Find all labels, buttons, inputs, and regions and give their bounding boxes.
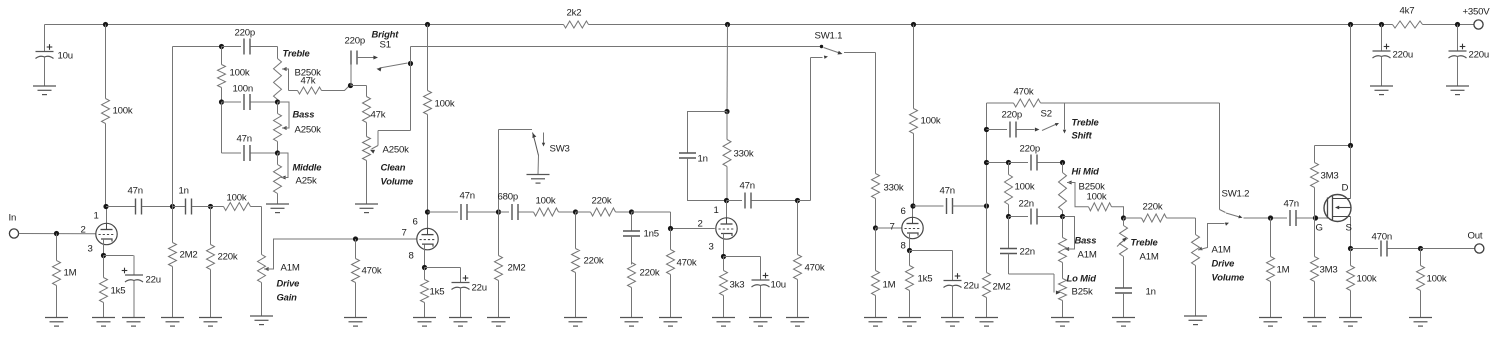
node source	[1348, 246, 1353, 251]
label Bass	[293, 109, 315, 120]
pin 8 label V2	[409, 251, 414, 262]
ground (10u V3)	[749, 318, 772, 327]
node 1n-220k	[192, 204, 224, 209]
resistor 2M2 (V2 out)	[495, 212, 526, 318]
ground (V2 1k5)	[413, 318, 436, 327]
node V4 anode	[910, 203, 915, 208]
resistor 470k (V3 grid)	[667, 229, 697, 318]
ground (source load)	[1339, 318, 1362, 327]
svg-text:220p: 220p	[1020, 144, 1041, 155]
svg-text:47k: 47k	[371, 110, 386, 121]
svg-text:8: 8	[901, 241, 906, 252]
svg-text:100k: 100k	[1087, 192, 1107, 203]
svg-text:47k: 47k	[301, 76, 316, 87]
svg-text:A25k: A25k	[296, 176, 317, 187]
node rail-220u-1	[1379, 22, 1384, 27]
ground (V1 22u)	[122, 318, 145, 327]
wire 220p2 row	[987, 162, 1009, 164]
svg-text:Bass: Bass	[1075, 235, 1097, 246]
svg-text:220u: 220u	[1469, 50, 1490, 61]
svg-text:2M2: 2M2	[993, 282, 1011, 293]
svg-text:2M2: 2M2	[180, 250, 198, 261]
capacitor 1n (treble)	[1115, 287, 1156, 318]
svg-text:+350V: +350V	[1463, 7, 1491, 18]
pin 1 label V3	[714, 205, 719, 216]
capacitor 47n (V1 coupling)	[128, 186, 173, 215]
label S2	[1041, 109, 1052, 120]
svg-text:Drive: Drive	[1212, 258, 1235, 269]
svg-text:Middle: Middle	[293, 162, 322, 173]
drive volume wiper	[1198, 224, 1225, 251]
svg-text:47n: 47n	[128, 186, 143, 197]
wire 100k to drive gain pot	[251, 207, 262, 255]
node rail-V3	[725, 22, 730, 27]
resistor 1M (SW1.2 out)	[1267, 218, 1290, 318]
svg-text:220k: 220k	[218, 252, 238, 263]
svg-text:220u: 220u	[1393, 50, 1414, 61]
svg-text:Drive: Drive	[277, 278, 300, 289]
svg-text:1n5: 1n5	[644, 229, 659, 240]
ground (drive volume)	[1184, 316, 1207, 325]
node gate	[1313, 215, 1318, 220]
svg-text:1k5: 1k5	[430, 287, 445, 298]
ground (1M input)	[45, 318, 68, 327]
label Volume (drive)	[1212, 272, 1245, 283]
ground (drive gain)	[250, 316, 273, 325]
label 4k7	[1400, 6, 1415, 17]
svg-text:D: D	[1342, 183, 1349, 194]
svg-text:100k: 100k	[1357, 274, 1377, 285]
wire V2 cathode to 22u	[425, 267, 461, 269]
ground (220k 1n5)	[620, 318, 643, 327]
svg-text:A250k: A250k	[295, 125, 322, 136]
capacitor 47n (V3 out)	[727, 181, 798, 209]
ground (220u first)	[1370, 86, 1393, 95]
capacitor 22u (V2 cathode bypass)	[452, 268, 487, 318]
svg-text:Lo Mid: Lo Mid	[1067, 273, 1097, 284]
svg-text:A1M: A1M	[281, 263, 300, 274]
node In-1M	[54, 231, 59, 236]
svg-text:1: 1	[714, 205, 719, 216]
ground (470k V3 out)	[786, 318, 809, 327]
terminal +350V	[1463, 7, 1491, 30]
wire 22n to lo mid wiper	[1009, 273, 1055, 275]
switch S1 lever	[377, 63, 408, 72]
potentiometer A1M Drive Volume	[1192, 218, 1200, 316]
label Volume	[381, 176, 414, 187]
label A25k	[296, 176, 317, 187]
capacitor 47n (mid)	[237, 134, 278, 162]
svg-text:22n: 22n	[1019, 199, 1034, 210]
svg-text:A1M: A1M	[1140, 252, 1159, 263]
label A250k	[295, 125, 322, 136]
svg-text:7: 7	[890, 222, 895, 233]
pin 3 label V3	[709, 242, 714, 253]
svg-text:1n: 1n	[179, 186, 189, 197]
label SW1.1	[815, 31, 843, 42]
resistor 47k (clean vol series)	[363, 97, 386, 123]
node SW3-2M2	[496, 209, 501, 214]
ground (1M out)	[1259, 318, 1282, 327]
wire bright node up to clean send	[411, 47, 821, 64]
capacitor 220p (treble shift)	[987, 110, 1040, 138]
ground (470k V3)	[659, 318, 682, 327]
svg-text:100k: 100k	[227, 193, 247, 204]
ground (1M V4)	[864, 318, 887, 327]
resistor 3M3 (upper)	[1311, 146, 1339, 219]
wire to V3 grid	[632, 212, 715, 229]
svg-text:Bright: Bright	[372, 29, 400, 40]
resistor 4k7 (rail dropper)	[1393, 21, 1423, 28]
svg-text:470k: 470k	[362, 266, 382, 277]
svg-text:Clean: Clean	[381, 162, 406, 173]
node tone mid-left	[219, 99, 224, 104]
node 220p-S2	[984, 127, 989, 132]
node V1 cathode	[101, 253, 106, 258]
clean volume wiper arrow	[370, 146, 378, 154]
svg-text:680p: 680p	[498, 192, 519, 203]
node 1n5	[629, 209, 634, 214]
ground (3k3)	[712, 318, 735, 327]
ground (clean volume)	[355, 204, 378, 213]
capacitor 220u (second)	[1449, 25, 1490, 86]
pin 1 label V1	[94, 211, 99, 222]
svg-text:6: 6	[901, 206, 906, 217]
node 22n left	[1006, 214, 1011, 219]
label Treble (drive)	[1131, 237, 1158, 248]
svg-text:3M3: 3M3	[1320, 265, 1338, 276]
node treble-bass	[275, 99, 280, 104]
treble wiper (drive)	[1117, 238, 1127, 247]
ground (10u)	[33, 86, 56, 95]
wire B+ rail right section	[1423, 24, 1474, 26]
ground (V1 1k5)	[92, 318, 115, 327]
node V3 grid	[668, 226, 673, 231]
svg-text:Volume: Volume	[1212, 272, 1245, 283]
svg-text:470k: 470k	[805, 263, 825, 274]
node 22n right	[1060, 214, 1065, 219]
potentiometer B25k Lo Mid	[1059, 263, 1067, 318]
resistor 3k3 (V3 cathode)	[720, 257, 745, 318]
node bass-middle	[275, 150, 280, 155]
node bright switch	[408, 61, 413, 66]
svg-text:220k: 220k	[584, 256, 604, 267]
label Clean	[381, 162, 406, 173]
label B250k	[1079, 182, 1106, 193]
resistor 1M (input)	[53, 234, 77, 318]
switch SW1.2 lever	[1226, 213, 1243, 218]
node V3 cathode	[721, 254, 726, 259]
ground (220u second)	[1446, 86, 1469, 95]
potentiometer Middle A25k	[274, 153, 282, 204]
wire V1 anode lead	[106, 207, 108, 224]
svg-text:G: G	[1316, 223, 1323, 234]
svg-text:1n: 1n	[1146, 287, 1156, 298]
svg-text:220k: 220k	[640, 268, 660, 279]
switch SW3 indicator arrow	[542, 133, 545, 147]
svg-text:330k: 330k	[734, 149, 754, 160]
capacitor 47n (V2 coupling)	[460, 191, 499, 221]
capacitor 22n (vertical)	[1000, 217, 1035, 275]
pin 6 label V2	[413, 217, 418, 228]
svg-text:47n: 47n	[740, 181, 755, 192]
svg-text:1k5: 1k5	[111, 286, 126, 297]
svg-text:Hi Mid: Hi Mid	[1072, 166, 1100, 177]
capacitor 1n (plate bypass)	[679, 112, 727, 201]
label Gain	[277, 292, 298, 303]
label Drive (volume)	[1212, 258, 1235, 269]
svg-text:A250k: A250k	[383, 145, 410, 156]
svg-text:22n: 22n	[1020, 247, 1035, 258]
capacitor 220u (first)	[1373, 25, 1414, 86]
svg-text:Bass: Bass	[293, 109, 315, 120]
label Treble	[283, 48, 310, 59]
resistor 100k (drive feed)	[224, 193, 251, 211]
pin 7 label V2	[402, 228, 407, 239]
svg-text:220k: 220k	[1143, 202, 1163, 213]
svg-text:Treble: Treble	[1072, 117, 1099, 128]
wire cathode to 22u	[104, 255, 134, 257]
pin 8 label V4	[901, 241, 906, 252]
resistor 2M2 (grid leak)	[169, 207, 198, 318]
bass wiper	[278, 102, 290, 130]
lo mid wiper	[1054, 274, 1061, 295]
ground (1n treble)	[1112, 318, 1135, 327]
svg-text:470k: 470k	[677, 258, 697, 269]
svg-text:47n: 47n	[237, 134, 252, 145]
svg-text:2: 2	[81, 225, 86, 236]
resistor 100k (source load)	[1347, 249, 1377, 318]
wire V1 cathode	[103, 239, 105, 256]
wire bright tap to 47k string	[351, 86, 367, 97]
ground (470k V2 grid)	[344, 318, 367, 327]
resistor 100k (V1 plate load)	[102, 25, 133, 207]
resistor 470k (feedback)	[1014, 87, 1220, 108]
triode V3	[716, 218, 737, 239]
svg-text:1k5: 1k5	[918, 274, 933, 285]
label SW1.2	[1222, 189, 1250, 200]
label A1M (drive volume)	[1212, 245, 1231, 256]
capacitor 10u (V3 cathode bypass)	[752, 257, 786, 318]
wire V2 cathode	[424, 245, 426, 268]
svg-text:220p: 220p	[235, 28, 256, 39]
node 100k-220k	[573, 209, 578, 214]
node bright tap	[348, 83, 353, 88]
capacitor 220p (second)	[1009, 144, 1063, 171]
wire SW1.2 to 47n	[1244, 217, 1288, 219]
label Lo Mid	[1067, 273, 1097, 284]
svg-text:100k: 100k	[435, 99, 455, 110]
label S1	[380, 40, 391, 51]
node rail-MOSFET	[1348, 22, 1353, 27]
wire V4 cathode	[909, 233, 911, 251]
node 220p2 left	[984, 160, 989, 165]
label 2k2	[567, 8, 582, 19]
pin 2 label V1	[81, 225, 86, 236]
svg-text:100k: 100k	[230, 68, 250, 79]
node 1n-330k top	[724, 109, 729, 114]
potentiometer Bass A250k	[274, 102, 282, 153]
node V4 grid	[873, 225, 878, 230]
svg-text:10u: 10u	[58, 51, 73, 62]
switch SW3 wire	[499, 130, 533, 213]
potentiometer B250k Hi Mid	[1059, 163, 1067, 217]
capacitor 22n (horizontal)	[1019, 199, 1063, 225]
svg-text:Shift: Shift	[1072, 130, 1093, 141]
svg-text:SW1.1: SW1.1	[815, 31, 843, 42]
label S	[1346, 223, 1352, 234]
resistor 2M2 (drive stack)	[983, 206, 1011, 318]
svg-text:7: 7	[402, 228, 407, 239]
resistor 220k (shunt)	[572, 212, 604, 318]
svg-text:1M: 1M	[1277, 265, 1290, 276]
drive gain wiper	[264, 239, 417, 271]
node V3 out	[795, 198, 800, 203]
label A1M (treble)	[1140, 252, 1159, 263]
ground (1k5 V4)	[898, 318, 921, 327]
MOSFET source follower	[1324, 146, 1351, 249]
svg-text:10u: 10u	[771, 280, 786, 291]
svg-text:100k: 100k	[921, 116, 941, 127]
ground (output load)	[1409, 318, 1432, 327]
svg-text:3k3: 3k3	[730, 280, 745, 291]
potentiometer A1M Treble (drive)	[1120, 218, 1128, 288]
svg-text:2M2: 2M2	[508, 263, 526, 274]
resistor 100k (V4 plate load)	[910, 25, 941, 207]
wire tone stack feed	[173, 47, 222, 207]
potentiometer Treble B250k	[274, 47, 282, 103]
node tone stack tap	[170, 204, 175, 209]
hi mid wiper	[1067, 181, 1089, 207]
node SW1.2 out	[1268, 215, 1273, 220]
label B25k	[1072, 287, 1093, 298]
label Middle	[293, 162, 322, 173]
svg-text:22u: 22u	[146, 275, 161, 286]
wire SW1.1 throw to 330k	[844, 53, 876, 174]
label Treble (shift)	[1072, 117, 1099, 128]
svg-text:6: 6	[413, 217, 418, 228]
label B250k	[295, 68, 322, 79]
ground (V2 22u)	[449, 318, 472, 327]
node V4 cathode	[907, 248, 912, 253]
switch SW1.1 lower throw arrow	[824, 56, 828, 59]
svg-text:47n: 47n	[1284, 199, 1299, 210]
ground (220k shunt)	[564, 318, 587, 327]
bass wiper (drive)	[1063, 217, 1075, 252]
resistor 47k (treble wiper series)	[289, 76, 350, 95]
wire S2 throw	[1063, 103, 1066, 134]
wire node to 680p	[499, 211, 510, 213]
resistor 100k (drive stack slope)	[1005, 163, 1035, 217]
svg-text:1M: 1M	[883, 280, 896, 291]
svg-text:47n: 47n	[460, 191, 475, 202]
ground (220k)	[199, 318, 222, 327]
label Drive	[277, 278, 300, 289]
svg-text:100k: 100k	[113, 106, 133, 117]
wire drain supply	[1315, 25, 1351, 146]
triode V1	[96, 223, 117, 244]
wire tone bus lower	[222, 102, 242, 153]
label Bass (drive)	[1075, 235, 1097, 246]
svg-text:A1M: A1M	[1212, 245, 1231, 256]
svg-text:3M3: 3M3	[1321, 171, 1339, 182]
node drain top	[1348, 143, 1353, 148]
wire V2 anode lead	[427, 212, 429, 229]
node tone top	[219, 44, 224, 49]
node drive-470k	[353, 236, 358, 241]
treble wiper	[282, 67, 289, 91]
wire V3 out to SW1.1	[798, 58, 823, 201]
resistor 470k (V2 grid)	[352, 239, 382, 318]
node 220p2 mid	[1006, 160, 1011, 165]
label Hi Mid	[1072, 166, 1100, 177]
label SW3	[550, 144, 570, 155]
svg-text:3: 3	[709, 242, 714, 253]
resistor 1k5 (V1 cathode)	[100, 256, 126, 318]
wire V4 grid	[876, 227, 902, 229]
svg-text:SW3: SW3	[550, 144, 570, 155]
ground (3M3 lower)	[1303, 318, 1326, 327]
terminal Out	[1468, 231, 1484, 254]
wire V4 anode lead	[912, 206, 914, 218]
resistor 1k5 (V2 cathode)	[421, 268, 445, 318]
label Shift	[1072, 130, 1093, 141]
wire V2 anode row	[428, 211, 459, 213]
potentiometer A1M Drive Gain	[258, 255, 266, 317]
node drive treble	[1121, 215, 1126, 220]
node rail-220u-2	[1455, 22, 1460, 27]
resistor 220k	[207, 207, 238, 318]
node rail-V4	[911, 22, 916, 27]
svg-text:4k7: 4k7	[1400, 6, 1415, 17]
node drive stack input	[984, 203, 989, 208]
potentiometer A1M Bass	[1059, 217, 1067, 263]
wire V3 plate supply	[726, 25, 729, 112]
svg-text:S2: S2	[1041, 109, 1052, 120]
switch S2 lever	[1042, 123, 1059, 131]
svg-text:Volume: Volume	[381, 176, 414, 187]
ground (lo mid)	[1051, 318, 1074, 327]
svg-text:2: 2	[698, 219, 703, 230]
capacitor 47n (V4 out)	[913, 186, 987, 215]
wire V3 cathode	[723, 234, 725, 257]
svg-text:1M: 1M	[64, 268, 77, 279]
svg-text:2k2: 2k2	[567, 8, 582, 19]
node 220p2 right	[1060, 160, 1065, 165]
pin 6 label V4	[901, 206, 906, 217]
label A250k (clean volume)	[383, 145, 410, 156]
svg-text:100k: 100k	[536, 196, 556, 207]
svg-text:100n: 100n	[233, 84, 254, 95]
wire V1 anode row	[106, 206, 135, 208]
switch SW1.1 lever	[824, 48, 843, 55]
ground (SW3)	[527, 156, 550, 184]
resistor 100k (V2 plate load)	[424, 25, 455, 213]
wire B+ rail left section	[45, 24, 564, 26]
node V1 anode	[103, 204, 108, 209]
capacitor 22u (V1 cathode bypass)	[122, 256, 161, 318]
capacitor 470n (output)	[1351, 232, 1421, 257]
svg-text:1n: 1n	[698, 154, 708, 165]
label G	[1316, 223, 1323, 234]
capacitor 220p (bright) with lead and arrow	[345, 36, 379, 86]
svg-text:Out: Out	[1468, 231, 1483, 242]
node V2 cathode	[422, 265, 427, 270]
resistor 100k (output load)	[1417, 249, 1447, 318]
svg-text:220p: 220p	[1002, 110, 1023, 121]
resistor 470k (V3 out load)	[794, 201, 825, 318]
svg-text:S: S	[1346, 223, 1352, 234]
